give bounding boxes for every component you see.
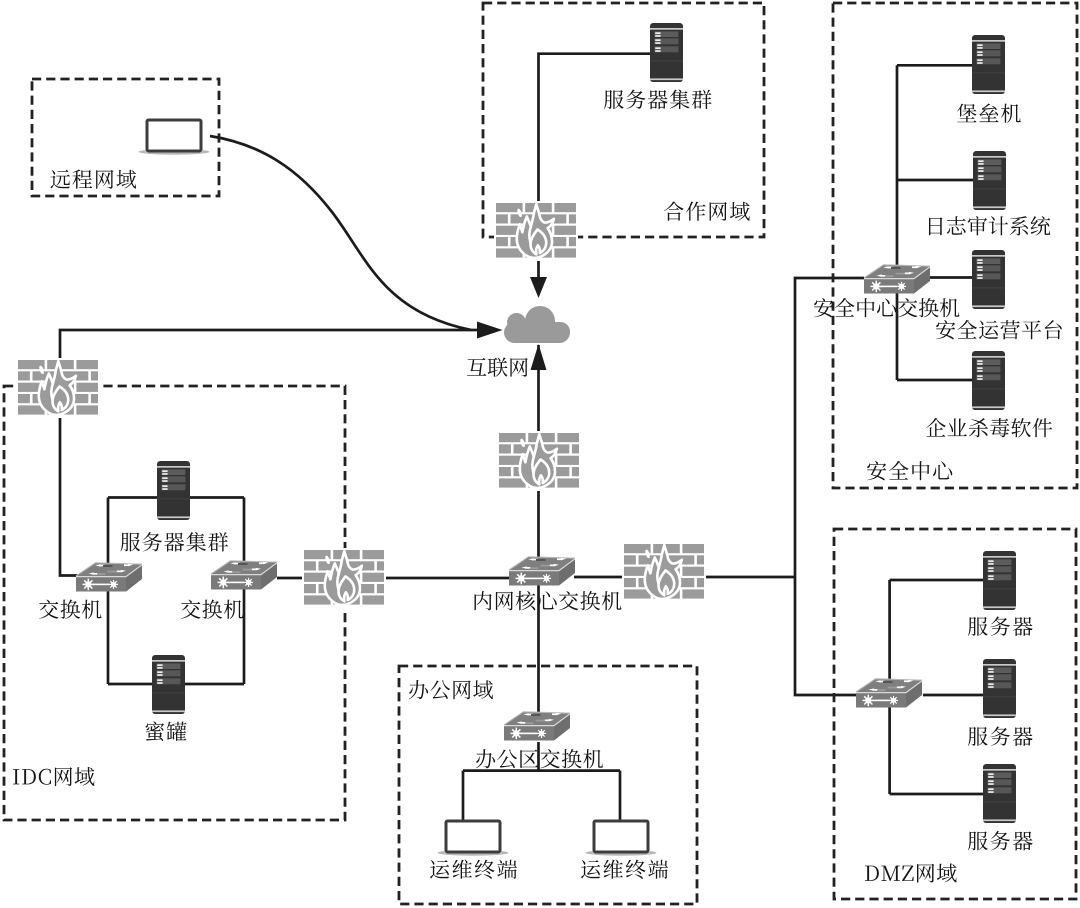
switch IDC 交换机 2 [211, 561, 277, 590]
region box 安全中心 security center [833, 3, 1077, 488]
switch DMZ 交换机 [856, 679, 922, 708]
switch 安全中心交换机 security [864, 265, 930, 294]
label IDC网域 [13, 767, 94, 786]
label 办公网域 [409, 680, 493, 699]
firewall FW4 IDC-core [302, 548, 386, 608]
wire IDC ring: switches to server cluster and honeypot [108, 498, 244, 685]
label 服务器集群 (partner) [604, 90, 712, 110]
label 运维终端 (right) [581, 860, 668, 879]
label 堡垒机 [957, 104, 1021, 123]
region box 远程网域 remote domain [32, 79, 219, 196]
server DMZ-3 [983, 764, 1016, 823]
label 安全中心 [867, 461, 952, 480]
laptop 运维终端 left [438, 820, 509, 856]
label 安全中心交换机 [814, 298, 960, 317]
label 远程网域 [51, 170, 137, 189]
label 内网核心交换机 [475, 591, 622, 610]
firewall FW2 internet-core [497, 431, 581, 491]
label 互联网 [467, 358, 528, 377]
label 办公区交换机 [476, 749, 603, 768]
label 服务器集群 (IDC) [121, 532, 229, 552]
wire trunk to DMZ switch [795, 577, 857, 695]
server DMZ-2 [983, 659, 1016, 718]
server 安全运营平台 security ops platform [972, 250, 1005, 309]
firewall FW1 partner-internet [494, 201, 578, 261]
label DMZ网域 [865, 864, 957, 883]
label 安全运营平台 [936, 320, 1062, 339]
wire internet to core switch via firewall [537, 345, 540, 558]
wire partner-server to internet via firewall [539, 54, 651, 279]
region box 合作网域 partner domain [483, 3, 764, 237]
label 交换机 (IDC right) [181, 600, 244, 619]
switch IDC 交换机 1 [76, 563, 142, 592]
region box 办公网域 office domain [399, 666, 697, 904]
label 交换机 (IDC left) [39, 600, 102, 619]
region box DMZ网域 DMZ domain [834, 529, 1076, 899]
server 堡垒机 bastion host [972, 35, 1005, 94]
internet cloud [504, 306, 570, 343]
firewall FW3 internet-IDC [16, 358, 100, 418]
wire DMZ bus to servers [890, 580, 983, 794]
label 服务器 DMZ-2 [968, 727, 1033, 747]
label 服务器 DMZ-3 [968, 831, 1033, 851]
wire internet to IDC switch1 via left firewall [60, 330, 478, 576]
label 企业杀毒软件 [926, 418, 1052, 437]
wire trunk to security switch [795, 278, 864, 577]
server DMZ-1 [983, 551, 1016, 610]
wire office switch to terminals [463, 742, 620, 822]
arrowhead into cloud from left [477, 322, 503, 339]
wire security bus to servers [897, 65, 973, 380]
label 蜜罐 [146, 722, 187, 741]
label 日志审计系统 [929, 216, 1050, 236]
server 蜜罐 honeypot [152, 655, 185, 714]
label 服务器 DMZ-1 [968, 617, 1033, 637]
firewall FW5 core-right trunk [622, 542, 706, 602]
server cluster (IDC) [157, 461, 190, 520]
laptop 运维终端 right [586, 820, 657, 856]
wire IDC switch2 to core switch via firewall [277, 577, 509, 580]
label 运维终端 (left) [430, 860, 517, 879]
label 合作网域 [664, 202, 750, 221]
arrowhead into cloud from top [530, 277, 547, 298]
wire core switch to office switch [537, 585, 540, 713]
server 企业杀毒软件 enterprise antivirus [972, 351, 1005, 410]
server 日志审计系统 log audit [973, 151, 1006, 210]
arrowhead into cloud from below [531, 344, 547, 370]
switch 内网核心交换机 core [509, 557, 575, 586]
wire remote laptop to internet (curve) [210, 136, 471, 330]
wire core switch to right trunk via firewall [574, 576, 795, 579]
switch 办公区交换机 office [504, 712, 570, 741]
server cluster (partner domain) [650, 23, 683, 82]
region box IDC网域 IDC domain [4, 386, 345, 820]
laptop remote terminal [139, 119, 210, 155]
